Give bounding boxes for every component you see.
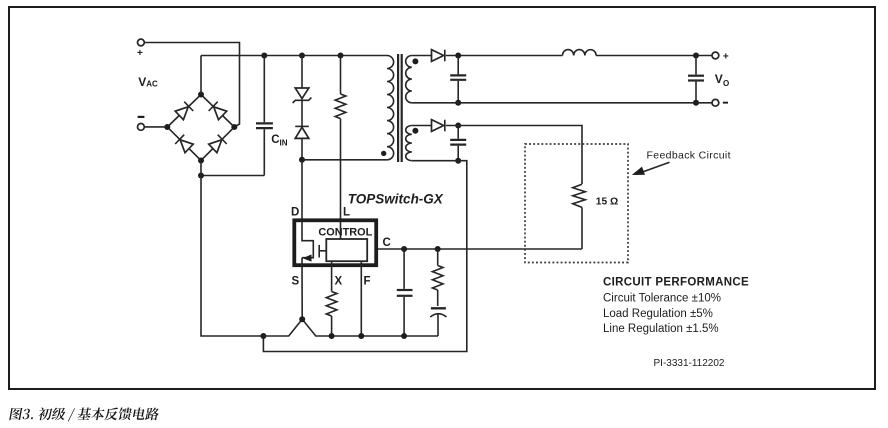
wire: secondary top to output diode (412, 55, 432, 57)
diode D-bias (432, 120, 445, 132)
resistor 15 ohm (feedback) (573, 184, 586, 249)
node: source return (299, 316, 305, 322)
terminal - (AC input negative) (138, 116, 145, 131)
wire: - terminal to bridge left vertex (144, 126, 167, 128)
svg-text:D: D (291, 207, 299, 219)
inductor L1 (output post filter) (563, 50, 597, 56)
diode D1 (clamp blocking) (295, 126, 309, 159)
node: bias cap bottom (455, 158, 461, 164)
svg-text:C: C (383, 237, 391, 249)
node: output cap C2 top (693, 53, 699, 59)
wire: CIN return to bridge negative column (201, 175, 264, 177)
wire: + terminal to bridge right vertex (144, 43, 239, 128)
svg-text:Feedback Circuit: Feedback Circuit (647, 150, 731, 162)
wire: output rail to inductor (446, 55, 563, 57)
wire: C pin line (378, 248, 582, 250)
terminal + (AC input positive) (137, 39, 144, 59)
wire: output return rail (412, 102, 712, 104)
svg-text:15 Ω: 15 Ω (596, 197, 618, 208)
capacitor CIN (256, 56, 273, 176)
node: CIN return junction (198, 173, 204, 179)
node: F to rail (358, 333, 364, 339)
node on rail at CIN (261, 53, 267, 59)
TOPSwitch-GX U1 outline (294, 220, 376, 265)
node: bias rectified (455, 123, 461, 129)
arrow to feedback box (632, 162, 670, 175)
resistor R (control loop) (432, 249, 443, 306)
dashed feedback circuit box (525, 144, 628, 263)
wire: inductor to + output terminal (596, 55, 712, 57)
svg-text:+: + (137, 48, 143, 59)
node: bypass cap to rail (401, 333, 407, 339)
wire: bias winding bottom / return down right side (263, 161, 466, 352)
transformer bias winding (406, 126, 412, 161)
capacitor C1 (secondary filter) (450, 56, 466, 103)
transformer core (398, 54, 402, 162)
node: output cap C1 top (455, 53, 461, 59)
transformer secondary winding (406, 56, 412, 103)
label VO (715, 72, 729, 88)
text CIRCUIT PERFORMANCE (603, 277, 749, 335)
bridge diode top-left (175, 102, 193, 120)
node on rail at clamp (299, 53, 305, 59)
svg-text:L: L (343, 207, 350, 219)
primary phasing dot (381, 151, 386, 156)
bridge diode bottom-left (175, 135, 193, 153)
svg-text:X: X (335, 276, 343, 288)
wire: bias winding top to bias diode (412, 125, 432, 127)
capacitor C-bias (450, 126, 466, 161)
node: C line at bypass cap (401, 246, 407, 252)
svg-text:Line Regulation ±1.5%: Line Regulation ±1.5% (603, 323, 719, 335)
svg-text:O: O (723, 79, 729, 88)
node: bridge vertices (164, 92, 237, 164)
capacitor C-polarized (control loop) (430, 308, 446, 336)
svg-text:C: C (271, 134, 279, 146)
bridge diode bottom-right (208, 135, 226, 153)
capacitor C-bypass (CONTROL pin) (397, 249, 413, 336)
resistor R-X (external current limit) (326, 261, 337, 336)
node: clamp / drain junction (299, 157, 305, 163)
terminal - (output) (712, 99, 728, 106)
svg-text:Load Regulation ±5%: Load Regulation ±5% (603, 308, 713, 320)
zener VR1 (clamp) (293, 56, 312, 127)
node: C1 bottom (455, 100, 461, 106)
svg-text:V: V (138, 75, 146, 89)
wire: DC+ top rail (201, 55, 387, 57)
svg-text:F: F (364, 276, 371, 288)
diode D-output (secondary rectifier) (432, 50, 445, 62)
bridge rectifier edges (167, 95, 234, 161)
terminal + (output) (712, 52, 729, 63)
node: return split (260, 333, 266, 339)
bias phasing dot (412, 128, 418, 134)
CONTROL block (326, 239, 367, 261)
svg-text:Circuit Tolerance ±10%: Circuit Tolerance ±10% (603, 293, 721, 305)
node: X resistor to rail (329, 333, 335, 339)
MOSFET Q (internal) (302, 221, 326, 262)
transformer T1 primary winding (387, 56, 394, 160)
wire: main return from bridge bottom (201, 161, 263, 337)
caption: figure 3 (9, 408, 159, 422)
node: C2 bottom (693, 100, 699, 106)
node on rail at line-sense resistor (338, 53, 344, 59)
wire: bias node to feedback (15 ohm) (446, 126, 582, 185)
svg-text:CIRCUIT PERFORMANCE: CIRCUIT PERFORMANCE (603, 277, 749, 289)
capacitor C2 (output) (688, 56, 704, 103)
wire: return rail with rise to source node (263, 319, 438, 336)
svg-text:V: V (715, 72, 723, 86)
svg-text:S: S (292, 276, 300, 288)
label CIN (271, 134, 287, 147)
wire: source S down to return (301, 258, 303, 320)
wire: F pin to rail (360, 261, 362, 336)
svg-text:+: + (723, 52, 729, 63)
svg-text:IN: IN (280, 138, 288, 147)
wire: drain node down to D pin (301, 160, 303, 221)
svg-text:CONTROL: CONTROL (318, 226, 372, 238)
bridge diode top-right (209, 102, 227, 120)
svg-text:TOPSwitch-GX: TOPSwitch-GX (348, 191, 444, 206)
svg-text:AC: AC (146, 80, 158, 89)
node: C line at RC branch (435, 246, 441, 252)
wire: clamp junction to transformer primary bottom (302, 159, 387, 161)
resistor R-line-sense (to L pin) (335, 56, 346, 240)
secondary phasing dot (412, 58, 418, 64)
label VAC (138, 75, 158, 89)
wire: bridge top vertex to DC+ rail (200, 56, 202, 95)
svg-text:PI-3331-112202: PI-3331-112202 (654, 358, 725, 369)
